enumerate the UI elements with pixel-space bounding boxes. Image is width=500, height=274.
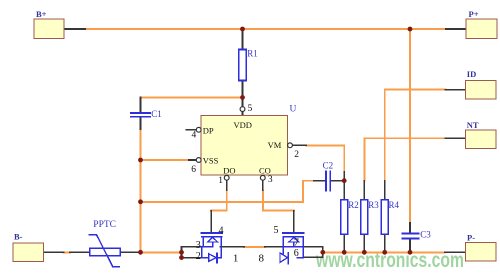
svg-text:VDD: VDD <box>233 120 251 130</box>
svg-text:C3: C3 <box>420 230 431 240</box>
svg-text:R3: R3 <box>368 200 379 210</box>
svg-text:P+: P+ <box>469 9 479 19</box>
svg-text:1: 1 <box>218 176 223 186</box>
svg-text:C1: C1 <box>151 109 162 119</box>
svg-text:R2: R2 <box>348 200 359 210</box>
svg-text:ID: ID <box>467 69 476 79</box>
svg-text:VM: VM <box>268 140 282 150</box>
svg-text:R1: R1 <box>247 49 258 59</box>
svg-text:NT: NT <box>467 120 479 130</box>
svg-text:P-: P- <box>467 233 475 243</box>
svg-text:R4: R4 <box>389 200 400 210</box>
svg-text:B+: B+ <box>36 9 47 19</box>
svg-text:C2: C2 <box>323 160 334 170</box>
svg-text:2: 2 <box>294 150 299 160</box>
svg-text:U: U <box>290 105 297 115</box>
svg-text:PPTC: PPTC <box>93 220 116 230</box>
svg-text:6: 6 <box>191 165 196 175</box>
svg-text:3: 3 <box>196 240 201 251</box>
svg-text:DP: DP <box>203 126 214 136</box>
svg-text:4: 4 <box>192 131 197 141</box>
svg-text:4: 4 <box>219 226 224 237</box>
svg-text:B-: B- <box>14 232 23 242</box>
svg-text:7: 7 <box>294 237 299 248</box>
svg-text:5: 5 <box>248 104 253 114</box>
svg-text:5: 5 <box>274 225 279 236</box>
svg-text:1: 1 <box>233 252 239 264</box>
svg-text:VSS: VSS <box>203 155 219 165</box>
svg-text:8: 8 <box>259 252 265 264</box>
svg-text:2: 2 <box>196 251 201 262</box>
svg-text:DO: DO <box>223 166 235 176</box>
svg-text:6: 6 <box>294 248 299 259</box>
svg-text:3: 3 <box>268 175 273 185</box>
svg-text:CO: CO <box>259 166 271 176</box>
